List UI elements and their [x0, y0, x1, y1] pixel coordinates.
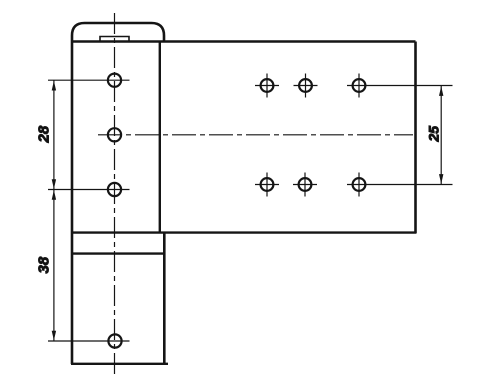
bottom edge of lower leaf — [71, 363, 168, 365]
svg-text:38: 38 — [36, 256, 53, 273]
hole A1 top row — [261, 79, 274, 92]
hole H1 — [108, 74, 121, 87]
wire: crosshair B3 + extension to dimension — [347, 173, 453, 197]
wire: crosshair A2 — [294, 74, 318, 98]
hinge knuckle (rounded top) — [72, 23, 164, 42]
svg-text:28: 28 — [36, 125, 53, 143]
wire: horizontal centerline through middle hole row — [98, 134, 413, 136]
wire: centerline arm through H1 — [48, 79, 130, 81]
arrow up at y=85.6 — [439, 86, 443, 96]
hole A2 top row — [299, 79, 312, 92]
wire: vertical centerline of left leaf — [114, 13, 116, 376]
label 25 — [426, 126, 442, 143]
left edge of vertical leaf — [71, 42, 74, 365]
hole H3 — [108, 183, 121, 196]
hole B2 bottom row — [299, 178, 312, 191]
dimension line 25 vertical — [440, 86, 442, 185]
arrow down at y=189.5 (28) — [52, 179, 56, 189]
bottom edge of horizontal leaf — [71, 231, 417, 233]
right edge of lower vertical leaf — [163, 233, 166, 365]
wire: centerline arm through H3 — [48, 189, 130, 191]
hole A3 top row — [353, 79, 366, 92]
wire: crosshair B2 — [293, 173, 317, 197]
right edge of upper vertical leaf — [159, 42, 161, 233]
hole H4 — [108, 334, 121, 347]
slot on knuckle — [100, 37, 129, 42]
wire: crosshair B1 — [255, 173, 279, 197]
wire: centerline arm through H4 — [48, 340, 130, 342]
joint line inside lower leaf — [71, 252, 164, 254]
top edge of both leaves — [71, 40, 416, 42]
hole B3 bottom row — [353, 178, 366, 191]
arrow down at y=184.4 — [439, 174, 443, 184]
right edge of horizontal leaf — [414, 42, 417, 234]
wire: crosshair A1 — [255, 74, 279, 98]
wire: crosshair A3 + extension to dimension — [347, 74, 453, 98]
hole H2 — [108, 128, 121, 141]
arrow up at y=80 — [52, 81, 56, 91]
dimension line 28/38 vertical — [53, 80, 55, 341]
hole B1 bottom row — [261, 178, 274, 191]
arrow up at y=189.5 (38) — [52, 190, 56, 200]
arrow down at y=341 — [52, 331, 56, 341]
label 38 — [36, 256, 53, 273]
svg-text:25: 25 — [426, 126, 442, 143]
label 28 — [36, 125, 53, 143]
